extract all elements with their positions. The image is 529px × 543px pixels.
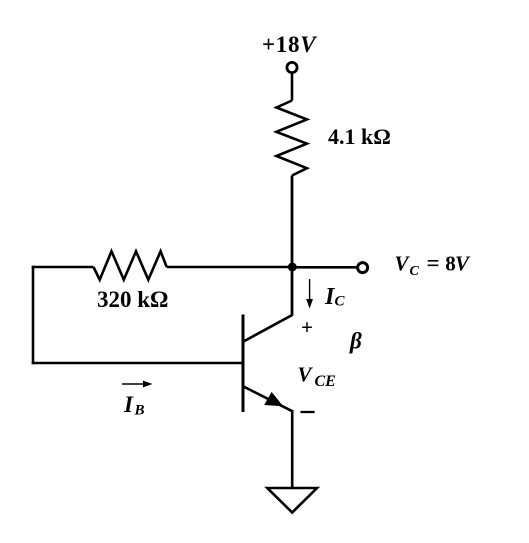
current arrow I_B [122, 381, 153, 388]
svg-text:+: + [301, 315, 313, 339]
svg-text:VC=8V: VC=8V [395, 251, 472, 280]
terminal VC [358, 263, 368, 273]
svg-text:IC: IC [324, 284, 346, 310]
wire left vertical feedback [32, 266, 35, 365]
resistor R2 320k zigzag [94, 251, 167, 279]
svg-text:VCE: VCE [298, 362, 336, 390]
wire supply to resistor [291, 73, 294, 100]
svg-text:320 kΩ: 320 kΩ [97, 287, 168, 312]
wire 320k left segment [32, 266, 94, 269]
svg-text:IB: IB [123, 392, 145, 419]
node collector junction [288, 263, 297, 272]
wire base [32, 362, 243, 365]
transistor Q1 base bar [242, 315, 245, 413]
wire node to collector [291, 267, 294, 316]
svg-text:β: β [349, 328, 362, 353]
power terminal +18V [287, 62, 297, 72]
transistor Q1 emitter diagonal [244, 387, 293, 412]
transistor Q1 emitter arrowhead [264, 392, 283, 406]
svg-text:4.1 kΩ: 4.1 kΩ [328, 124, 391, 149]
label minus VCE [301, 411, 315, 413]
transistor Q1 collector diagonal [244, 315, 293, 342]
svg-text:+18V: +18V [262, 32, 317, 57]
resistor R1 4.1k zigzag [276, 101, 307, 176]
wire emitter vertical [291, 410, 294, 488]
current arrow I_C [306, 279, 313, 309]
ground [267, 488, 317, 513]
wire node to VC terminal [292, 266, 357, 269]
wire 320k right segment [167, 266, 292, 269]
wire resistor to node [291, 176, 294, 268]
